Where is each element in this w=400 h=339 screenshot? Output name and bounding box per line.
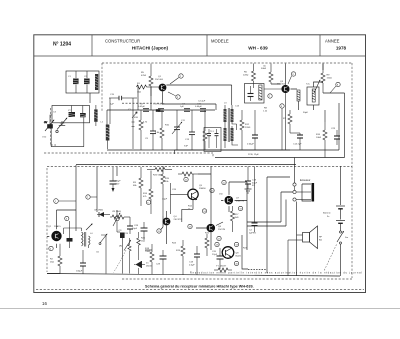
svg-text:C13: C13 [185,139,190,141]
svg-text:2SC2N: 2SC2N [218,229,225,231]
svg-text:15kΩ: 15kΩ [327,77,333,79]
svg-text:1μF: 1μF [110,104,114,106]
node tp15 [238,206,242,210]
svg-text:1978: 1978 [336,46,347,51]
svg-text:0μF/6V: 0μF/6V [249,232,257,234]
resistor R14 47k [143,171,153,215]
battery B1 9V [323,166,345,231]
fine print note line [190,272,362,275]
capacitor C19 ground [245,167,258,190]
wires jack to speaker [247,158,297,276]
svg-text:1μF: 1μF [180,106,184,108]
svg-text:30pF: 30pF [303,112,309,114]
svg-text:4: 4 [50,249,52,251]
svg-text:C24: C24 [124,233,129,235]
node 1 [54,199,76,204]
node 24 [268,94,272,98]
svg-text:10μF: 10μF [132,228,138,230]
resistor R1 [137,83,151,94]
node tp19 [234,242,238,246]
resistor R27 [128,238,131,274]
earphone label [300,178,311,182]
svg-text:Q4: Q4 [174,216,178,218]
svg-text:1kΩ: 1kΩ [141,240,145,242]
wire converter bottom [47,210,152,274]
svg-text:0.04μF: 0.04μF [195,106,203,108]
capacitor C9 osc [119,230,125,274]
ground symbol [245,189,252,193]
zener diode D1 ZB-56 [134,261,153,274]
svg-text:L3: L3 [224,103,227,105]
svg-text:R10: R10 [134,117,139,119]
svg-text:R17: R17 [235,214,240,216]
node tp14 [202,209,206,213]
svg-text:2SC400: 2SC400 [155,79,164,81]
svg-text:R6: R6 [244,72,248,74]
svg-text:700Ω: 700Ω [145,251,151,253]
svg-text:CV: CV [44,122,48,124]
header text ANNEE [325,39,347,51]
svg-text:2: 2 [180,76,182,78]
node tp5 [115,210,120,232]
svg-text:R26: R26 [141,238,146,240]
svg-text:R14: R14 [143,193,148,195]
resistor R15 [161,166,170,216]
svg-text:R3: R3 [133,182,137,184]
svg-text:1kΩ: 1kΩ [235,217,239,219]
svg-text:(R): (R) [119,246,122,248]
svg-text:10V: 10V [116,183,120,185]
diode CR 1N60 [94,210,110,218]
svg-text:S1F: S1F [184,146,189,148]
svg-text:C28: C28 [134,225,139,227]
svg-text:C18: C18 [189,262,194,264]
svg-text:Q8: Q8 [236,253,240,255]
header text N 1204 [53,42,71,48]
node tp11 [184,177,188,181]
node tp16 [188,224,192,228]
svg-text:C13: C13 [235,106,240,108]
svg-text:HP: HP [319,237,323,239]
svg-text:C14 2μF: C14 2μF [293,144,302,146]
svg-text:0.04μF: 0.04μF [247,144,255,146]
capacitor C8 [128,104,160,118]
svg-text:N° 1204: N° 1204 [53,42,71,48]
capacitor C32 [76,250,86,274]
resistor R5 47k [141,64,153,97]
svg-text:R2: R2 [50,259,54,261]
svg-text:Reproduction même partielle in: Reproduction même partielle interdite sa… [190,272,362,275]
svg-text:R7: R7 [283,118,287,120]
tuning gang CV1 [44,120,54,132]
resistor R25 56k horizontal [147,168,172,177]
node 22 [288,72,296,84]
svg-text:C29: C29 [156,264,161,266]
svg-text:L4: L4 [90,233,93,235]
link wires FM to receiver [76,158,345,165]
oscillator coil T1 [64,223,94,248]
node tp6 [146,200,150,204]
thermistor label [216,266,227,268]
svg-text:VR 10kΩ: VR 10kΩ [112,211,121,213]
svg-text:9v: 9v [327,216,330,218]
transistor Q4 2SC372 [163,216,183,225]
svg-text:R24: R24 [172,243,177,245]
resistor R17 [231,206,240,232]
svg-text:R20: R20 [205,233,210,235]
svg-text:4.7k: 4.7k [143,122,148,124]
test point node 20 [170,74,183,84]
value labels audio section [42,112,248,254]
node tp20 [234,261,238,265]
dashed mechanical link volume to switch [324,245,337,272]
node tp7 [86,195,97,199]
svg-text:C1: C1 [68,76,72,78]
wire IF mid vertical [132,98,135,149]
svg-text:ANNEE: ANNEE [325,39,340,44]
svg-text:R16: R16 [316,134,321,136]
node tp10 [157,229,161,233]
wire collector bus Q1 [122,85,232,110]
trimmer arrow C11 [172,110,182,150]
svg-text:CONSTRUCTEUR: CONSTRUCTEUR [105,39,140,44]
svg-text:C3: C3 [53,112,57,114]
padder capacitor C6 [67,221,73,248]
capacitor C14 2uF [248,133,303,156]
header table lines [34,35,366,56]
svg-text:C2: C2 [249,230,253,232]
svg-text:Q1: Q1 [158,76,162,78]
coil winding L1 [95,74,98,90]
node tp4 [49,246,53,250]
svg-text:C23: C23 [331,128,336,130]
resistor R7b 240 [283,110,292,133]
header text CONSTRUCTEUR [105,39,169,51]
svg-text:3: 3 [177,97,179,99]
svg-text:C26: C26 [172,189,177,191]
resistor R3 68k [133,167,143,206]
svg-text:68k: 68k [133,185,137,187]
electrolytic C29 [156,250,167,274]
svg-text:CV2: CV2 [42,137,47,139]
svg-text:220Ω: 220Ω [243,74,249,76]
svg-text:R12: R12 [188,206,193,208]
svg-text:MODELE: MODELE [211,39,229,44]
transistor Q6 2SC2N [207,224,226,233]
svg-text:T2a: T2a [306,84,311,86]
capacitor C9 [145,110,156,150]
resistor R21 horizontal [214,268,232,272]
svg-text:X?: X? [68,110,71,112]
svg-text:1.2k: 1.2k [263,110,268,112]
svg-text:CR 1N60: CR 1N60 [94,210,104,212]
coil winding L2b [94,105,97,126]
svg-text:2kΩ: 2kΩ [50,261,54,263]
capacitor C16 0.04 [247,110,258,150]
resistor R6 [243,64,256,86]
svg-text:C15: C15 [110,94,115,96]
switch SW on battery [337,231,348,276]
svg-text:HITACHI (Japon): HITACHI (Japon) [132,46,169,51]
trimmer resistor RT with arrow [114,240,132,273]
trimmer C2 in L1 box [84,71,90,93]
resistor R7 50k [261,64,273,85]
trimmer C3 in L2 box [68,106,75,118]
capacitor C23 [331,128,340,145]
svg-text:C9: C9 [119,230,123,232]
svg-text:10μF: 10μF [162,199,168,201]
resistor R18 700 [145,244,154,274]
coupling coil T2b [297,90,300,101]
resistor R13 10k horizontal [178,172,198,176]
svg-text:Q7: Q7 [236,198,240,200]
IF transformer T4 [245,84,265,104]
transistor Q1 2SC400 [150,76,166,91]
transistor Q5 2SB56 driver [188,185,207,200]
filter box TL1 [204,128,221,152]
svg-text:Schéma général du récepteur mi: Schéma général du récepteur miniature Hi… [145,285,254,289]
wire left feeder [76,165,117,231]
svg-text:30μF: 30μF [116,181,122,183]
FM coil box L2 [52,106,90,123]
svg-text:0.02μF: 0.02μF [138,106,146,108]
tuning gang CV2 [56,118,67,133]
resistor R20 [205,234,209,256]
transistor Q8 output [222,247,241,259]
bottom rule [0,308,400,310]
svg-text:C2 2μF: C2 2μF [198,101,206,103]
page number 16 [42,301,47,306]
svg-text:16: 16 [42,301,47,306]
svg-text:100μF: 100μF [76,271,83,273]
node tp13 [210,188,214,192]
svg-text:2SC372: 2SC372 [174,219,183,221]
trimmer C4 in L2 box [80,106,86,118]
svg-text:Q5: Q5 [199,185,203,187]
svg-text:C6: C6 [96,252,100,254]
svg-text:7: 7 [269,96,271,98]
svg-text:7: 7 [87,197,89,199]
svg-text:Q3: Q3 [280,81,284,83]
wire IF right [324,110,326,122]
transistor Q3 2SC352 [264,81,290,93]
capacitor C21 [249,167,258,235]
resistor R12b [203,110,207,150]
capacitor C18 [189,246,200,275]
svg-text:C20: C20 [212,251,217,253]
svg-text:9: 9 [292,74,294,76]
node 23 [330,82,340,93]
svg-text:R9: R9 [327,75,331,77]
speaker HP [288,226,323,276]
detector transformer T2 [306,80,321,105]
svg-text:0.4μF: 0.4μF [189,264,195,266]
svg-text:PCB, 12μF: PCB, 12μF [248,154,259,156]
svg-text:Batterie: Batterie [323,212,331,215]
dashed enclosure lower receiver box [36,166,364,290]
resistor R9 15k [321,64,332,94]
wire bottom bus [47,274,340,277]
node tp3 [65,216,69,220]
FM coil box L1 [66,71,99,93]
node tp12 [222,180,226,184]
svg-text:8Ω: 8Ω [319,239,322,241]
resistor R11 [155,110,164,150]
dashed enclosure FM unit top [44,63,352,166]
svg-text:50kΩ: 50kΩ [261,68,267,70]
wires around Q3 [175,64,345,158]
svg-text:R15: R15 [165,178,170,180]
wire B+ top rail [254,64,324,71]
svg-text:150: 150 [219,194,223,196]
volume pot VR 10k [110,211,130,226]
switch SW1 osc [99,234,107,245]
svg-text:L2: L2 [101,122,104,124]
svg-text:R12: R12 [245,124,250,126]
svg-text:10kΩ: 10kΩ [316,137,322,139]
node 25 [280,104,284,150]
electrolytic C22 30uF [110,167,122,192]
capacitor C15 [109,94,137,106]
page frame [34,35,366,293]
svg-text:8: 8 [337,85,339,87]
svg-text:C11: C11 [181,120,186,122]
svg-text:T°L 0603T: T°L 0603T [216,266,227,268]
capacitor C13 [185,110,195,150]
svg-text:Z1: Z1 [146,263,149,265]
svg-text:40μF: 40μF [252,182,258,184]
svg-text:R1: R1 [137,83,141,85]
node tp17 [217,236,221,240]
svg-text:WH - 639: WH - 639 [248,46,268,51]
resistor R16 10k [316,122,327,158]
node tp18 [215,242,219,246]
resistor R26 [137,232,146,260]
capacitor C7 [180,104,190,112]
svg-text:TL1: TL1 [210,131,215,133]
svg-text:1kΩ: 1kΩ [137,92,141,94]
transistor Q2 2SA15 converter [48,225,62,241]
resistor R2 2k [50,244,62,274]
svg-text:Q6: Q6 [218,226,222,228]
svg-text:R19: R19 [176,250,181,252]
svg-text:22μF: 22μF [212,254,218,256]
IF transformer L3 [224,103,239,148]
value labels IF strip [143,101,309,148]
svg-text:Q2: Q2 [48,226,52,228]
wire AM section verticals [101,235,106,274]
svg-text:2SB56: 2SB56 [199,188,206,190]
wires tuner left [50,115,84,147]
svg-text:2B-56: 2B-56 [146,265,153,267]
wire between coil boxes [89,93,91,103]
resistor R19 [176,240,185,275]
resistor R12 220 [240,110,251,150]
header text MODELE [211,39,268,51]
svg-text:6: 6 [147,202,149,204]
wire Q3 emitter down [285,93,287,150]
svg-text:2SA15: 2SA15 [54,225,61,228]
svg-text:C12 0.02μF: C12 0.02μF [153,104,165,106]
svg-text:47kΩ: 47kΩ [141,75,147,77]
svg-text:10k: 10k [165,181,169,183]
caption [145,285,254,289]
capacitor C12 [153,104,165,112]
svg-text:R10: R10 [165,125,170,127]
svg-text:Ecouteur: Ecouteur [300,178,311,182]
svg-text:Ba4S: Ba4S [236,255,242,257]
test point node 21 [168,92,180,99]
svg-text:220Ω: 220Ω [245,127,251,129]
electrolytic C20 22uF [212,248,224,269]
svg-text:R8: R8 [264,108,268,110]
coil L2 [101,98,111,149]
IF bus wire [107,85,290,150]
electrolytic C28 [132,222,148,240]
capacitor C24 [124,217,133,235]
svg-text:R5: R5 [141,72,145,74]
earphone jack [293,183,314,202]
svg-text:C9: C9 [145,138,149,140]
output stage box [242,177,290,273]
svg-text:47k: 47k [143,196,147,198]
trimmer C1 in L1 box [68,71,79,93]
svg-text:1: 1 [55,201,57,203]
resistor R10 [134,110,143,150]
svg-text:Sw: Sw [345,237,348,239]
svg-text:5: 5 [281,106,283,108]
transistor Q7 2SB77B [225,196,245,205]
capacitor C10 [195,104,206,112]
wire Q5 base column [170,183,176,214]
wires audio core [161,166,247,250]
